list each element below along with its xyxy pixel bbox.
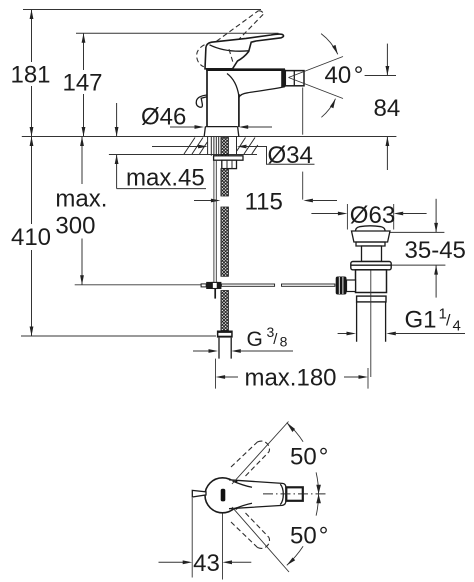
handle raised dashed tip (258, 11, 263, 15)
washer under deck (214, 156, 243, 160)
handle raised dashed boss back (197, 45, 205, 67)
dimension D34 (152, 142, 315, 169)
drain rod knob (336, 277, 347, 295)
rod coupling (201, 284, 206, 287)
threaded hose band segment C (221, 207, 229, 276)
dimension 35-45 (389, 199, 466, 298)
svg-text:max.: max. (55, 185, 107, 212)
plan aerator box (286, 487, 303, 501)
deck hatch left (184, 138, 207, 155)
plan dashed lever lower (231, 513, 270, 548)
faucet pedestal right edge (238, 94, 240, 127)
threaded hose band segment A (221, 138, 229, 156)
shank lines in hole (211, 137, 218, 156)
svg-text:/: / (446, 313, 451, 330)
threaded hose band segment D (221, 291, 229, 331)
svg-text:8: 8 (280, 333, 288, 349)
drain body (356, 270, 387, 293)
svg-text:50°: 50° (290, 443, 328, 470)
handle raised dashed upper line (217, 11, 259, 41)
dimension max.180 (216, 359, 369, 392)
arc 40deg lower (321, 99, 335, 118)
plan pop-up pin (192, 490, 206, 497)
aerator box (285, 71, 304, 86)
arc 50deg lower (287, 494, 319, 565)
wire spout swivel line lower (289, 78, 344, 99)
wire ext-line 147 top (76, 32, 279, 34)
svg-text:Ø34: Ø34 (268, 142, 313, 169)
horizontal pop-up rod right part (282, 284, 335, 286)
dimension 43 (159, 498, 252, 580)
handle boss inner curve (210, 45, 249, 51)
plan 50deg diagonal upper (232, 422, 289, 485)
handle lever solid (205, 34, 284, 69)
svg-text:Ø63: Ø63 (350, 202, 395, 229)
drain flange step (356, 242, 385, 246)
svg-text:410: 410 (11, 224, 51, 251)
drain rod knob stem (347, 280, 356, 292)
wire ext-line hose end 410 (21, 335, 216, 337)
drain tailpiece (357, 302, 386, 342)
faucet spout end face (281, 69, 285, 87)
plan lever pivot bar (221, 489, 226, 502)
svg-text:4: 4 (453, 318, 461, 335)
svg-text:147: 147 (62, 70, 102, 97)
handle raised dashed inner (229, 49, 233, 62)
drain seal ring (351, 262, 391, 270)
plan centerline dash-dot (263, 493, 328, 495)
plan view body circle (205, 478, 240, 513)
rod tip below coupling (214, 289, 216, 299)
svg-text:max.45: max.45 (126, 165, 205, 192)
wire ext-line rod end max300 (75, 284, 201, 286)
plan lever top edge (229, 480, 286, 509)
threaded hose band segment B (221, 169, 229, 196)
dimension max.45 (115, 103, 206, 192)
wire spout swivel line upper (289, 57, 344, 78)
svg-text:43: 43 (193, 550, 220, 577)
dimension max.300 (55, 137, 107, 285)
plan lever inner curves (233, 481, 284, 510)
dimension 181 (10, 10, 50, 137)
dimension G 3/8 (193, 324, 293, 353)
svg-text:35-45: 35-45 (405, 237, 466, 264)
faucet base plate (204, 127, 239, 137)
deck bottom line (109, 154, 257, 156)
dimension G1 1/4 (338, 306, 465, 336)
arc 50deg upper (287, 423, 319, 494)
plan lever dots (235, 480, 237, 482)
svg-text:40°: 40° (325, 62, 364, 89)
handle raised dashed lower line (232, 14, 263, 46)
dimension 147 (62, 33, 102, 136)
faucet spout underside (239, 87, 285, 98)
dimension 115 (194, 88, 337, 216)
wire deck top surface line (22, 136, 397, 138)
drain lower ring (357, 296, 386, 302)
svg-text:115: 115 (245, 189, 283, 216)
mounting nut (222, 160, 237, 168)
plan 50deg diagonal lower (232, 507, 289, 572)
svg-text:50°: 50° (290, 522, 328, 549)
plan dashed lever upper (231, 441, 270, 476)
svg-text:G1: G1 (405, 307, 437, 334)
drain neck (362, 246, 382, 262)
dimension 410 (11, 137, 51, 337)
plan lever fill (229, 480, 286, 509)
svg-text:84: 84 (374, 95, 401, 122)
wire ext-line spout outlet (302, 88, 304, 135)
drain flange (352, 231, 391, 242)
deck hole edges (208, 137, 237, 155)
svg-text:300: 300 (55, 212, 95, 239)
svg-text:181: 181 (10, 62, 50, 89)
pull rod vertical pair (214, 160, 216, 282)
drain dome cap (355, 226, 385, 231)
arc 40deg upper (321, 34, 338, 55)
faucet body top edge (206, 68, 285, 71)
svg-text:max.180: max.180 (244, 364, 336, 391)
pop-up rod hook at body (196, 95, 207, 107)
horizontal pop-up rod left part (221, 284, 274, 286)
G3/8 hose nut (217, 331, 233, 338)
dimension D46 (141, 104, 272, 131)
aerator divider (293, 71, 295, 86)
faucet pedestal transition curve (227, 74, 239, 97)
svg-text:G: G (247, 328, 263, 351)
dimension D63 (311, 202, 426, 230)
wire ext-line 181 top (23, 9, 261, 11)
G3/8 tube (219, 338, 231, 359)
drain centerline (370, 271, 372, 378)
faucet body left edge (206, 69, 208, 127)
dimension 84 (365, 44, 401, 170)
deck hatch right (237, 138, 258, 155)
